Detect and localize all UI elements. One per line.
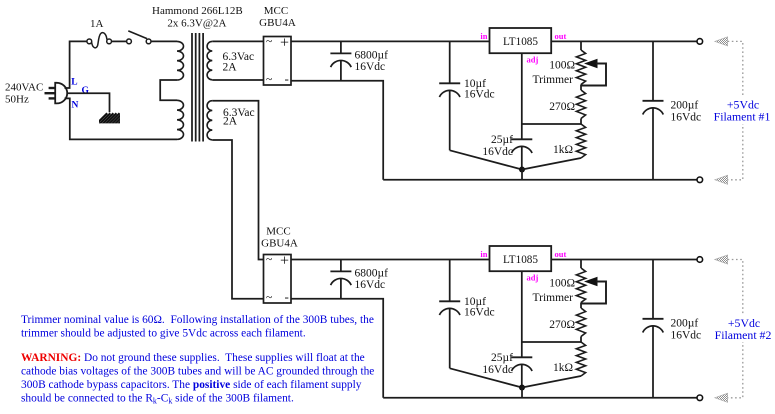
- trimmer R4 100Ω (lower): [576, 260, 606, 309]
- output terminal - (lower): [697, 395, 703, 401]
- wire sec2 bottom to bridge2: [212, 140, 263, 299]
- output terminal + (upper): [697, 39, 703, 45]
- ground: [96, 113, 132, 124]
- wire - upper (bridge to bottom rail): [291, 81, 383, 180]
- output terminal + (lower): [697, 257, 703, 263]
- wire adj branch to divider (upper): [522, 123, 581, 125]
- pin label in (upper): [480, 31, 487, 41]
- svg-text:~: ~: [266, 254, 272, 266]
- svg-text:Filament #1: Filament #1: [714, 110, 771, 124]
- svg-text:1kΩ: 1kΩ: [553, 144, 573, 156]
- svg-text:300B cathode bypass capacitors: 300B cathode bypass capacitors. The posi…: [21, 379, 362, 391]
- wire C2 to junction (upper): [450, 150, 522, 169]
- svg-text:~: ~: [266, 36, 272, 48]
- bracket arrows Filament #2: [712, 255, 774, 402]
- pin label out (lower): [555, 249, 567, 259]
- svg-text:16Vdc: 16Vdc: [482, 364, 513, 376]
- svg-text:+: +: [280, 35, 289, 52]
- label C4 200µf 16Vdc: [671, 100, 702, 124]
- trimmer R1 100Ω (upper): [576, 41, 606, 90]
- label R6 1kΩ: [553, 362, 573, 374]
- svg-text:Filament #2: Filament #2: [715, 328, 772, 342]
- wire - lower (bridge to bottom rail): [291, 299, 383, 398]
- label 240VAC 50Hz: [5, 82, 43, 106]
- resistor R2 270Ω (upper): [576, 90, 585, 124]
- wire bottom rail upper: [383, 179, 697, 181]
- label Hammond 266L12B: [152, 5, 243, 17]
- svg-text:16Vdc: 16Vdc: [355, 61, 386, 73]
- svg-text:16Vdc: 16Vdc: [464, 88, 495, 100]
- wire sec1 bottom to bridge: [212, 79, 263, 81]
- label R1 100Ω: [549, 60, 575, 72]
- label secondary2 6.3Vac 2A: [223, 107, 255, 128]
- svg-text:16Vdc: 16Vdc: [671, 329, 702, 341]
- svg-text:Trimmer: Trimmer: [533, 74, 574, 86]
- label C5 6800µf 16Vdc: [355, 267, 389, 291]
- capacitor C4 200µf (upper): [643, 41, 664, 179]
- resistor R6 1kΩ (lower): [576, 342, 585, 376]
- pin label adj (lower): [527, 273, 539, 283]
- svg-text:6800µf: 6800µf: [355, 267, 389, 279]
- label C3 25µf 16Vdc: [482, 134, 513, 158]
- label C2 10µf 16Vdc: [464, 78, 495, 100]
- wire adj (upper): [521, 53, 523, 139]
- svg-text:LT1085: LT1085: [503, 254, 538, 266]
- svg-text:WARNING: Do not ground these s: WARNING: Do not ground these supplies. T…: [21, 352, 365, 364]
- svg-text:2x 6.3V@2A: 2x 6.3V@2A: [167, 17, 226, 29]
- svg-text:100Ω: 100Ω: [549, 60, 575, 72]
- label GBU4A (lower): [261, 238, 298, 250]
- wire R6 to junction (lower): [522, 376, 581, 388]
- label C7 25µf 16Vdc: [482, 352, 513, 376]
- svg-text:16Vdc: 16Vdc: [482, 146, 513, 158]
- svg-text:1kΩ: 1kΩ: [553, 362, 573, 374]
- svg-text:in: in: [480, 249, 487, 259]
- wire + rail lower (bridge to regulator in): [291, 259, 490, 261]
- svg-text:270Ω: 270Ω: [549, 101, 575, 113]
- wire adj branch to divider (lower): [522, 341, 581, 343]
- bracket arrows Filament #1: [712, 37, 774, 184]
- svg-text:-: -: [285, 71, 289, 86]
- capacitor C7 25µf (lower): [511, 357, 532, 387]
- node L: [71, 78, 77, 88]
- note warning: [21, 352, 374, 405]
- label secondary1 6.3Vac 2A: [223, 51, 255, 74]
- svg-text:16Vdc: 16Vdc: [464, 306, 495, 318]
- label C8 200µf 16Vdc: [671, 318, 702, 342]
- resistor R3 1kΩ (upper): [576, 124, 585, 158]
- wire out rail lower: [551, 259, 697, 261]
- svg-text:adj: adj: [527, 55, 539, 65]
- label R3 1kΩ: [553, 144, 573, 156]
- svg-text:out: out: [555, 249, 567, 259]
- svg-text:in: in: [480, 31, 487, 41]
- node G: [82, 86, 90, 96]
- wire junction to bottom rail (lower): [521, 388, 523, 398]
- svg-text:GBU4A: GBU4A: [259, 17, 296, 29]
- svg-text:100Ω: 100Ω: [549, 278, 575, 290]
- wire adj (lower): [521, 271, 523, 357]
- label R4 Trimmer: [533, 292, 574, 304]
- svg-text:1A: 1A: [90, 18, 104, 30]
- pin label in (lower): [480, 249, 487, 259]
- wire L (plug to fuse): [65, 41, 88, 88]
- transformer T1 secondary winding 1: [207, 41, 212, 79]
- capacitor C5 6800µf (lower): [330, 260, 351, 299]
- wire bottom rail lower: [383, 397, 697, 399]
- fuse F1 1A: [87, 33, 112, 48]
- wire N (plug to primary bottom): [65, 98, 178, 139]
- bridge rectifier U4 MCC GBU4A (lower): [264, 253, 292, 305]
- wire junction to bottom rail (upper): [521, 170, 523, 180]
- svg-text:~: ~: [266, 74, 272, 86]
- svg-text:Trimmer nominal value is 60Ω.: Trimmer nominal value is 60Ω. Following …: [21, 314, 374, 326]
- svg-text:16Vdc: 16Vdc: [671, 111, 702, 123]
- svg-text:+: +: [280, 253, 289, 270]
- junction node (upper): [519, 167, 525, 173]
- wire fuse to switch: [112, 40, 127, 42]
- capacitor C8 200µf (lower): [643, 260, 664, 398]
- label R2 270Ω: [549, 101, 575, 113]
- regulator U3 LT1085 (lower): [490, 246, 552, 271]
- capacitor C1 6800µf (upper): [330, 41, 351, 80]
- resistor R5 270Ω (lower): [576, 308, 585, 342]
- svg-text:MCC: MCC: [266, 226, 290, 238]
- pin label adj (upper): [527, 55, 539, 65]
- svg-text:Hammond 266L12B: Hammond 266L12B: [152, 5, 243, 17]
- wire switch to transformer: [151, 40, 177, 42]
- label C1 6800µf 16Vdc: [355, 49, 389, 73]
- transformer T1 primary winding: [160, 41, 183, 139]
- svg-text:GBU4A: GBU4A: [261, 238, 298, 250]
- svg-text:6800µf: 6800µf: [355, 49, 389, 61]
- capacitor C2 10µf (upper): [439, 41, 460, 150]
- transformer T1 secondary winding 2: [207, 101, 212, 140]
- switch S1: [127, 31, 151, 44]
- svg-text:should be connected to the Rk-: should be connected to the Rk-Ck side of…: [21, 392, 294, 405]
- svg-text:cathode bias voltages of the 3: cathode bias voltages of the 300B tubes …: [21, 366, 374, 378]
- svg-text:Trimmer: Trimmer: [533, 292, 574, 304]
- capacitor C6 10µf (lower): [439, 260, 460, 369]
- bridge rectifier U2 MCC GBU4A (upper): [264, 35, 292, 87]
- svg-text:L: L: [71, 78, 77, 88]
- transformer core: [192, 33, 203, 142]
- wire R3 to junction (upper): [522, 158, 581, 170]
- capacitor C3 25µf (upper): [511, 139, 532, 169]
- svg-text:-: -: [285, 289, 289, 304]
- label GBU4A (upper): [259, 17, 296, 29]
- svg-text:2A: 2A: [223, 116, 238, 128]
- svg-text:25µf: 25µf: [491, 134, 513, 146]
- label R4 100Ω: [549, 278, 575, 290]
- svg-text:240VAC: 240VAC: [5, 82, 43, 94]
- svg-text:270Ω: 270Ω: [549, 319, 575, 331]
- wire G (plug to ground): [67, 93, 110, 112]
- wire C6 to junction (lower): [450, 368, 522, 387]
- svg-text:MCC: MCC: [264, 5, 288, 17]
- svg-text:adj: adj: [527, 273, 539, 283]
- label R1 Trimmer: [533, 74, 574, 86]
- svg-text:200µf: 200µf: [671, 318, 699, 330]
- label MCC (upper): [264, 5, 288, 17]
- pin label out (upper): [555, 31, 567, 41]
- label MCC (lower): [266, 226, 290, 238]
- junction node (lower): [519, 385, 525, 391]
- svg-text:~: ~: [266, 292, 272, 304]
- label +5Vdc Filament #1: [714, 98, 771, 124]
- AC plug P1: [45, 83, 68, 104]
- svg-text:LT1085: LT1085: [503, 36, 538, 48]
- svg-text:N: N: [72, 101, 79, 111]
- label R5 270Ω: [549, 319, 575, 331]
- svg-text:G: G: [82, 86, 90, 96]
- wire sec2 top to bridge2: [212, 101, 263, 260]
- svg-text:200µf: 200µf: [671, 100, 699, 112]
- wire + rail upper (bridge to regulator in): [291, 40, 490, 42]
- label 1A: [90, 18, 104, 30]
- label 2x 6.3V@2A: [167, 17, 226, 29]
- wire sec1 top to bridge: [212, 40, 263, 42]
- regulator U1 LT1085 (upper): [490, 28, 552, 53]
- node N: [72, 101, 79, 111]
- label C6 10µf 16Vdc: [464, 296, 495, 318]
- svg-text:50Hz: 50Hz: [5, 93, 29, 105]
- wire out rail upper: [551, 40, 697, 42]
- output terminal - (upper): [697, 177, 703, 183]
- label +5Vdc Filament #2: [715, 316, 772, 342]
- svg-text:trimmer should be adjusted to: trimmer should be adjusted to give 5Vdc …: [21, 327, 306, 339]
- note trimmer adjustment: [21, 314, 374, 340]
- svg-text:16Vdc: 16Vdc: [355, 279, 386, 291]
- svg-text:out: out: [555, 31, 567, 41]
- svg-text:2A: 2A: [223, 62, 238, 74]
- svg-text:25µf: 25µf: [491, 352, 513, 364]
